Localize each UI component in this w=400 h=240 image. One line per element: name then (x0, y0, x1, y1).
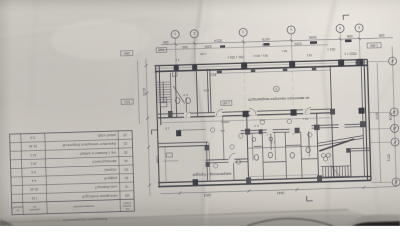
svg-text:²м: ²м (33, 205, 36, 208)
bottom paper-edge shadow (0, 210, 400, 227)
sink small 2 (269, 137, 273, 141)
axis circle C (390, 124, 398, 132)
svg-text:089: 089 (163, 40, 169, 44)
svg-text:3: 3 (242, 30, 244, 34)
svg-text:58 т: 58 т (281, 49, 287, 53)
svg-text:0521 т 1: 0521 т 1 (344, 51, 356, 55)
svg-text:31.1: 31.1 (30, 153, 37, 157)
svg-text:91.46: 91.46 (29, 144, 38, 148)
dark arc mid-bottom (247, 219, 333, 227)
svg-text:1.8: 1.8 (165, 127, 170, 131)
svg-text:091 т 001 т: 091 т 001 т (227, 55, 244, 59)
dark corner bottom-left (0, 220, 14, 226)
grid circle 1 (171, 30, 179, 38)
inner face of top wall (210, 70, 330, 74)
vertical partition x300 (301, 132, 302, 179)
svg-text:0584: 0584 (155, 156, 159, 164)
wall toilet-block right (196, 69, 197, 117)
grid axis circles, right column (388, 57, 400, 186)
svg-text:м ²: м ² (16, 209, 20, 212)
vertical partition x246 (247, 115, 249, 180)
sink small 1 (252, 138, 256, 142)
svg-text:001 т: 001 т (327, 47, 335, 51)
svg-text:1 2: 1 2 (175, 58, 180, 62)
svg-text:5: 5 (339, 26, 341, 30)
svg-text:4.4: 4.4 (31, 179, 36, 183)
dark corner bottom-right shadow (348, 214, 400, 226)
svg-text:тк1: тк1 (220, 129, 225, 133)
vertical wall x349 lower (349, 151, 352, 178)
svg-text:50: 50 (124, 167, 128, 171)
svg-text:096: 096 (347, 34, 353, 38)
svg-text:60: 60 (124, 176, 128, 180)
interior wall right block top (y~128) (311, 124, 363, 126)
blob at stair right (358, 108, 364, 114)
right exterior wall (364, 60, 368, 180)
corridor guide line under wall A (162, 118, 330, 123)
svg-text:1: 1 (174, 32, 176, 36)
column on top wall axis2 (192, 64, 197, 70)
axis circle A (388, 57, 396, 65)
left vertical dimension line (146, 59, 150, 196)
svg-text:0203: 0203 (204, 193, 212, 197)
svg-text:01 п: 01 п (302, 117, 308, 121)
column on top wall axis6 (357, 59, 363, 66)
svg-text:2: 2 (193, 31, 195, 35)
door swing arcs (186, 106, 312, 160)
corridor left wall (207, 69, 208, 113)
svg-text:021: 021 (307, 53, 312, 57)
svg-text:3: 3 (275, 87, 277, 91)
section mark bottom (307, 196, 313, 201)
column on top wall axis3 (241, 62, 247, 69)
svg-text:80: 80 (125, 193, 129, 197)
grid leaders from circles to wall (175, 32, 360, 67)
table frame (10, 131, 135, 215)
table texts (upside-down) (10, 133, 133, 214)
table row lines (10, 139, 132, 143)
svg-text:70: 70 (125, 184, 129, 188)
right vertical dimension line (392, 46, 396, 186)
grid circle 5 (336, 24, 344, 32)
vertical partition x205 (206, 142, 207, 182)
dimension line top (161, 38, 393, 45)
left staircase (156, 71, 178, 111)
svg-text:9.4: 9.4 (31, 170, 36, 174)
dimension line second (161, 45, 328, 50)
top exterior wall (155, 59, 368, 65)
svg-text:Е714: Е714 (209, 73, 216, 77)
grid circle digits (174, 25, 397, 191)
bottom dimension line (160, 187, 396, 194)
svg-text:3000: 3000 (375, 112, 379, 120)
table column lines (21, 134, 23, 215)
label box right МВ (367, 43, 381, 48)
svg-text:098: 098 (379, 33, 385, 37)
grid circle 6 (355, 24, 363, 32)
dark tick rects under top dim line (220, 39, 352, 47)
svg-text:авотищортклеЭ: авотищортклеЭ (92, 159, 117, 164)
right lower stair zebra (321, 164, 350, 178)
circled room number 3 (273, 86, 279, 92)
svg-text:0203: 0203 (294, 41, 301, 45)
axis circle E (392, 178, 400, 186)
svg-text:родироК: родироК (104, 176, 117, 180)
section mark plan-left (152, 130, 158, 135)
svg-text:2ВН: 2ВН (123, 51, 130, 55)
guide line above bottom wall (248, 175, 318, 177)
column on top wall axis5 (338, 59, 344, 66)
svg-text:16.1: 16.1 (30, 161, 37, 165)
svg-text:лезунаС: лезунаС (103, 168, 117, 172)
svg-text:ьдащолп: ьдащолп (29, 208, 40, 211)
dark corner bottom-right black strip (352, 221, 400, 226)
svg-text:0096: 0096 (309, 35, 317, 39)
bottom exterior wall (158, 176, 371, 182)
svg-text:40: 40 (124, 159, 128, 163)
interior wall A (long, below corridor) (158, 109, 332, 114)
svg-text:6: 6 (358, 25, 360, 29)
wall C (y~159) (205, 159, 247, 160)
wc fixture 1 (175, 98, 180, 104)
svg-text:ремоН: ремоН (123, 201, 131, 204)
left margin box 2 (121, 99, 133, 104)
left margin box 1 (121, 51, 133, 56)
svg-text:п 08: п 08 (200, 52, 206, 56)
sink small 3 (321, 153, 325, 157)
paper bottom edge line (0, 210, 348, 223)
svg-text:1 НП: 1 НП (222, 101, 230, 105)
svg-text:ьлаз йывогроТ: ьлаз йывогроТ (95, 185, 118, 190)
right upper stair flight (sloped) (317, 136, 363, 151)
svg-text:ТмВ: ТмВ (158, 48, 164, 52)
axis circle B (390, 108, 398, 116)
wc fixture 6 (306, 147, 311, 153)
axis dashes through big room (244, 69, 293, 110)
vertical partition x262 (262, 133, 263, 180)
interior wall B left (y~141) (158, 142, 208, 143)
door blob left (176, 130, 181, 136)
svg-text:10: 10 (123, 133, 127, 137)
svg-text:0969: 0969 (262, 42, 270, 46)
svg-text:решет клеБ: решет клеБ (98, 133, 116, 138)
axis circle D (391, 138, 399, 146)
box label in corridor (221, 101, 232, 106)
vertical wall x362 (361, 64, 364, 177)
svg-text:1С1: 1С1 (124, 100, 130, 104)
svg-text:4173: 4173 (142, 88, 146, 96)
wc fixture 2 (186, 98, 191, 104)
svg-text:0008: 0008 (388, 113, 392, 121)
door openings (paper gaps) in walls (184, 111, 345, 163)
svg-text:еинавонемиаН: еинавонемиаН (73, 204, 94, 209)
svg-text:0079: 0079 (262, 37, 270, 41)
svg-text:-ещемоп: -ещемоп (122, 204, 132, 207)
svg-text:1-ВМ: 1-ВМ (370, 43, 378, 47)
svg-text:4: 4 (290, 28, 292, 32)
svg-text:8ТА: 8ТА (204, 88, 210, 92)
short interior wall stubs / door jambs (162, 94, 318, 184)
wc fixture 4 (268, 152, 273, 158)
svg-text:30: 30 (124, 150, 128, 154)
tick marks on dimension lines (144, 36, 398, 195)
grid circle 2 (190, 30, 198, 38)
vertical wall x332 (right block left) (330, 65, 333, 178)
interior wall B mid (y~131) (241, 129, 297, 131)
svg-text:20: 20 (123, 141, 127, 145)
wc fixture 3 (254, 155, 259, 161)
vertical partition x316 (317, 113, 319, 178)
svg-text:С.У: С.У (254, 124, 259, 128)
paper mottling (0, 20, 400, 200)
svg-text:340: 340 (182, 45, 188, 49)
wc fixture 5 (290, 152, 295, 158)
svg-text:091 т 001 т: 091 т 001 т (252, 54, 268, 58)
grid circle 3 (239, 28, 247, 36)
svg-text:7.01: 7.01 (31, 196, 38, 200)
svg-text:0571: 0571 (386, 154, 390, 161)
column on top wall axis4 (289, 61, 295, 68)
door blob bottom (193, 179, 199, 185)
svg-text:0442: 0442 (276, 191, 284, 195)
right axis leaders (368, 61, 393, 183)
wc room diagonal door (173, 86, 185, 104)
label box top-left (156, 48, 167, 53)
svg-text:С.У: С.У (183, 93, 188, 97)
column on wall A axis3 (243, 111, 249, 118)
svg-text:8214: 8214 (214, 39, 222, 43)
faint left room line (165, 147, 166, 183)
grid axis circles, top row (171, 24, 363, 39)
column blobs on walls (174, 59, 367, 186)
section mark top right (343, 15, 349, 20)
left exterior wall (156, 66, 160, 186)
grid circle 4 (287, 26, 295, 34)
column on wall A axis4 (290, 109, 296, 116)
svg-text:0.3: 0.3 (30, 136, 35, 140)
svg-text:30.49: 30.49 (30, 187, 39, 191)
vent marks on inner top wall (167, 60, 367, 186)
svg-text:0254: 0254 (204, 44, 211, 48)
landing wall right (y~152) (346, 147, 370, 150)
vertical partition x284 (285, 132, 286, 179)
wall between stair and toilets (175, 70, 176, 118)
column on top wall axis1 (174, 65, 179, 71)
circled room numbers (210, 118, 328, 168)
sink small 4 (326, 153, 330, 157)
